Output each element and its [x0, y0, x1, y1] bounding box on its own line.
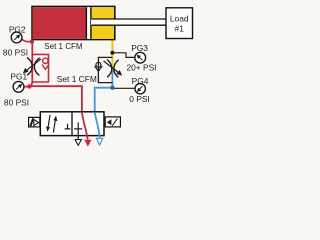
wire yellow from cylinder rod port down to flow valve FC2	[111, 40, 113, 71]
cylinder C1 barrel	[32, 6, 167, 39]
svg-text:20+ PSI: 20+ PSI	[126, 62, 156, 72]
cap-end red fill	[33, 7, 87, 39]
wire blue below FC2 restrictor	[111, 70, 113, 88]
flow control FC1 bypass loop	[32, 54, 48, 82]
rod-end yellow fill	[91, 7, 114, 39]
wire blue horizontal to valve and down	[95, 88, 113, 113]
svg-text:#1: #1	[175, 24, 185, 34]
directional valve V1 body	[40, 112, 104, 136]
exhaust open arrow black	[75, 140, 81, 146]
valve V1 left box arrow 2	[53, 121, 55, 133]
svg-text:80 PSI: 80 PSI	[3, 47, 28, 57]
piston rod	[91, 19, 167, 25]
svg-text:80 PSI: 80 PSI	[4, 98, 29, 108]
piston	[86, 7, 91, 39]
valve V1 left box arrow 1	[48, 115, 50, 127]
node PG4 junction	[110, 86, 114, 90]
valve V1 blocked port T	[65, 124, 71, 129]
blue flow line through valve	[95, 112, 100, 137]
valve V1 exhaust port line with T	[74, 122, 82, 139]
adjust arrow of FC2	[104, 61, 119, 73]
svg-text:Set 1 CFM: Set 1 CFM	[44, 42, 83, 51]
wire red vertical from cylinder cap port to flow valve FC1 and PG1 junction	[30, 42, 32, 87]
wire black stub to PG3	[112, 53, 135, 58]
flow control FC2 bypass loop	[98, 57, 112, 82]
blue flow open arrow	[97, 138, 103, 145]
valve V1 right pilot actuator	[105, 117, 120, 127]
adjust arrow of FC1	[27, 59, 41, 70]
load box Load #1	[166, 8, 193, 39]
red flow line through valve	[82, 112, 88, 139]
valve V1 left pilot actuator	[29, 117, 40, 127]
valve V1 position divider	[71, 112, 73, 136]
node cylinder cap port junction	[30, 39, 34, 43]
gauge PG1	[4, 72, 29, 108]
svg-text:Set 1 CFM: Set 1 CFM	[57, 74, 97, 84]
svg-text:0 PSI: 0 PSI	[129, 94, 149, 104]
red flow arrow	[84, 140, 91, 147]
wire black stub to PG4	[113, 87, 135, 89]
gauge PG2	[3, 25, 28, 58]
check valve of FC1	[43, 58, 48, 63]
wire red short PG2 to cylinder port	[22, 39, 32, 41]
node PG1 junction	[27, 84, 31, 88]
svg-text:Load: Load	[170, 14, 189, 24]
gauge PG4	[129, 76, 149, 104]
svg-text:PG1: PG1	[10, 72, 27, 82]
restrictor arcs of FC1	[27, 58, 32, 76]
node PG3 junction	[110, 51, 114, 55]
gauge PG3	[126, 43, 156, 72]
restrictor arcs of FC2	[107, 60, 112, 78]
wire red horizontal PG1 to valve inlet	[24, 86, 82, 112]
check valve of FC2	[96, 62, 101, 67]
